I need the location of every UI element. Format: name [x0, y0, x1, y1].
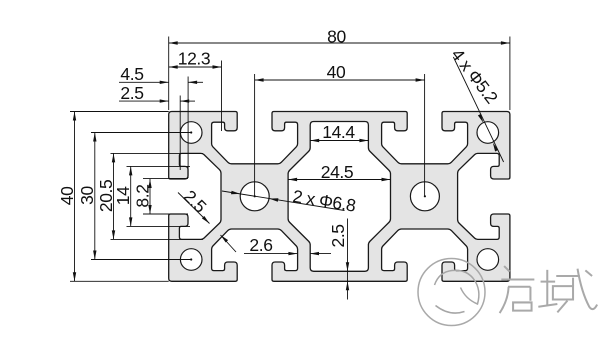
watermark character Yu [538, 269, 597, 313]
svg-text:12.3: 12.3 [178, 49, 210, 69]
dimension 14 hook span [130, 166, 132, 226]
svg-text:30: 30 [77, 186, 97, 205]
svg-text:8.2: 8.2 [132, 184, 152, 207]
watermark logo swirl [435, 270, 479, 304]
dimension 2.5 cavity bottom wall [347, 219, 349, 300]
svg-text:80: 80 [327, 26, 346, 46]
leader 4 x dia 5.2 corner holes [453, 57, 503, 162]
dimension 2.5 wall [119, 100, 169, 102]
dimension 20.5 slot width [113, 153, 115, 239]
svg-text:14: 14 [113, 186, 133, 205]
svg-text:40: 40 [57, 186, 77, 205]
svg-text:2.5: 2.5 [328, 224, 348, 247]
corner hole dia5.2 top-left [180, 122, 202, 144]
center hole dia6.8 left [240, 182, 269, 211]
dimension 24.5 cavity width [288, 179, 390, 181]
dimension 2.6 web [244, 253, 297, 255]
corner hole dia5.2 bottom-left [180, 249, 202, 271]
dimension 40 hole spacing [255, 79, 425, 81]
corner hole dia5.2 bottom-right [477, 249, 499, 271]
dimension 12.3 [169, 66, 222, 68]
svg-text:40: 40 [327, 62, 346, 82]
profile body: 40x80 aluminium extrusion outline with six open T-slots [169, 112, 510, 282]
watermark character Qi [500, 266, 535, 313]
dimension 2.5 diagonal web [178, 193, 210, 224]
center hole dia6.8 right [410, 182, 439, 211]
dimension 40 overall height [74, 112, 76, 282]
svg-text:24.5: 24.5 [321, 162, 353, 182]
watermark logo circle [418, 259, 485, 326]
corner hole dia5.2 top-right [477, 122, 499, 144]
svg-text:4.5: 4.5 [120, 64, 143, 84]
dimension 8.2 slot opening [149, 179, 151, 214]
dimension 4.5 [119, 81, 169, 83]
leader 2 x dia 6.8 center holes [222, 191, 345, 211]
dimension 30 hole spacing vertical [94, 133, 96, 260]
dimension 14.4 cavity opening [310, 140, 368, 142]
svg-text:14.4: 14.4 [322, 122, 355, 142]
svg-text:2.6: 2.6 [249, 235, 272, 255]
svg-text:2.5: 2.5 [120, 83, 143, 103]
center cavity (14.4 / 24.5 octagonal hollow) [288, 122, 390, 272]
dimension 80 overall width [169, 42, 510, 44]
